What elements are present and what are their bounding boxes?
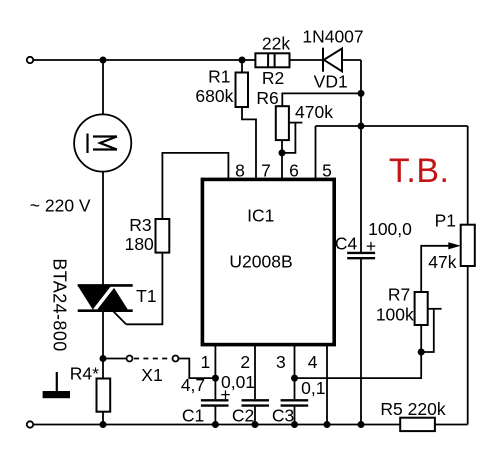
- resistor R3: [156, 219, 170, 253]
- wire C1 bottom: [214, 405, 216, 424]
- svg-text:0,1: 0,1: [301, 378, 325, 398]
- wire top rail: [34, 59, 256, 61]
- svg-text:22k: 22k: [262, 34, 290, 54]
- switch X1 right contact: [173, 356, 179, 362]
- svg-text:1: 1: [201, 352, 211, 372]
- wire right rail up: [467, 266, 469, 425]
- wire VD1 vertical to C4: [360, 60, 362, 252]
- junction pin6/R6 wiper: [279, 149, 286, 156]
- wire R1 bottom to pin7: [242, 107, 256, 179]
- wire C3 bottom: [294, 405, 296, 424]
- svg-text:U2008B: U2008B: [229, 252, 292, 272]
- wire pin5 vertical: [315, 126, 317, 179]
- svg-text:C1: C1: [182, 406, 204, 426]
- svg-text:7: 7: [261, 160, 271, 180]
- svg-text:C2: C2: [232, 406, 254, 426]
- svg-text:2: 2: [240, 352, 250, 372]
- wire P1 wiper to R7 top: [421, 246, 448, 292]
- svg-text:T1: T1: [136, 286, 156, 306]
- junction C4/bottom rail: [358, 421, 365, 428]
- wire R6 bottom to pin6: [281, 140, 283, 179]
- svg-text:R2: R2: [262, 68, 284, 88]
- junction C2/bottom rail: [252, 421, 259, 428]
- resistor R2: [255, 53, 289, 67]
- resistor R4: [97, 379, 111, 412]
- svg-text:5: 5: [322, 160, 332, 180]
- svg-text:R3: R3: [129, 215, 151, 235]
- wire pin4 down: [326, 345, 328, 425]
- wire R1 top: [241, 60, 243, 73]
- junction R4/bottom rail: [100, 421, 107, 428]
- svg-text:100k: 100k: [376, 305, 414, 325]
- wire right rail P1 top: [467, 126, 469, 225]
- svg-text:T.B.: T.B.: [389, 152, 450, 190]
- resistor R5: [400, 418, 435, 431]
- svg-text:BTA24-800: BTA24-800: [50, 258, 70, 351]
- resistor R1: [236, 73, 249, 108]
- junction pin3/C3: [291, 375, 298, 382]
- wire C4 bottom to rail: [360, 259, 362, 425]
- svg-text:X1: X1: [141, 365, 162, 385]
- junction R1/R2 top rail: [239, 57, 246, 64]
- svg-text:6: 6: [289, 160, 299, 180]
- svg-text:C4: C4: [335, 233, 358, 253]
- junction triac/X1/R4: [100, 355, 107, 362]
- capacitor C1: [201, 400, 229, 405]
- potentiometer P1: [461, 225, 475, 266]
- junction VD1/pin5 node: [358, 123, 365, 130]
- svg-text:C3: C3: [272, 406, 294, 426]
- wire motor to triac: [102, 172, 104, 286]
- wire R3 bottom to gate: [126, 253, 162, 325]
- wire motor top: [102, 60, 104, 115]
- wire R2 to VD1: [290, 59, 324, 61]
- IC U1 body: [202, 179, 334, 344]
- junction motor/top rail: [100, 57, 107, 64]
- capacitor C4 electrolytic: [347, 253, 375, 258]
- wire R6 wiper: [289, 122, 302, 124]
- svg-text:P1: P1: [435, 211, 456, 231]
- svg-text:3: 3: [276, 352, 286, 372]
- svg-text:680k: 680k: [195, 86, 233, 106]
- wire X1 left: [103, 358, 126, 360]
- terminal bottom-left: [27, 421, 33, 427]
- wire gate diagonal: [113, 311, 126, 324]
- junction C1/bottom rail: [212, 421, 219, 428]
- svg-text:VD1: VD1: [314, 72, 348, 92]
- capacitor C2: [242, 400, 270, 405]
- svg-text:47k: 47k: [428, 252, 456, 272]
- svg-text:180: 180: [125, 234, 154, 254]
- diode VD1: [323, 48, 342, 72]
- svg-text:+: +: [366, 236, 376, 256]
- wire R7 bottom: [420, 325, 422, 352]
- junction VD1/R6 node: [358, 90, 365, 97]
- svg-text:1N4007: 1N4007: [302, 26, 363, 46]
- wire pin2 down: [254, 345, 256, 399]
- wire pin3 to R7 node: [295, 352, 422, 378]
- svg-text:R1: R1: [208, 66, 230, 86]
- junction R7 bottom/wiper: [418, 349, 425, 356]
- triac T1: [78, 285, 112, 310]
- svg-text:+: +: [220, 385, 230, 405]
- wire VD1 to corner: [342, 59, 361, 61]
- svg-text:4,7: 4,7: [181, 375, 205, 395]
- svg-text:IC1: IC1: [247, 206, 274, 226]
- capacitor C3: [281, 400, 309, 405]
- switch X1 left contact: [127, 356, 133, 362]
- junction pin4/bottom rail: [324, 421, 331, 428]
- resistor R6 trimmer: [276, 106, 289, 140]
- motor M1 circle: [74, 114, 131, 171]
- wire C2 bottom: [254, 405, 256, 424]
- svg-text:R4*: R4*: [70, 364, 99, 384]
- wire R3 top to pin8: [162, 153, 228, 219]
- wire triac to X1 node: [102, 311, 104, 379]
- svg-text:R5 220k: R5 220k: [380, 399, 445, 419]
- svg-text:8: 8: [235, 160, 245, 180]
- wire pin5 horizontal: [316, 125, 468, 127]
- wire R6 top to VD1 node: [282, 93, 361, 106]
- svg-text:4: 4: [308, 352, 318, 372]
- motor M glyph rotated: [88, 134, 118, 154]
- ground: [56, 372, 58, 391]
- resistor R7 trimmer: [415, 292, 428, 325]
- switch X1 dashed blade: [134, 358, 171, 360]
- wire bottom rail: [34, 424, 401, 426]
- wire pin3 down: [294, 345, 296, 399]
- svg-text:R6: R6: [256, 88, 278, 108]
- wire X1 to pin1: [179, 359, 215, 379]
- wire pin1 down: [214, 345, 216, 399]
- wire R4 bottom: [102, 412, 104, 425]
- svg-text:470k: 470k: [295, 102, 333, 122]
- svg-text:R7: R7: [388, 284, 410, 304]
- wire R5 right to rail corner: [435, 424, 468, 426]
- junction C3/bottom rail: [291, 421, 298, 428]
- terminal top-left: [27, 57, 33, 63]
- junction pin1/C1: [212, 375, 219, 382]
- wire R7 wiper: [428, 308, 442, 310]
- P1 wiper arrowhead: [448, 242, 460, 249]
- svg-text:~ 220 V: ~ 220 V: [30, 195, 91, 215]
